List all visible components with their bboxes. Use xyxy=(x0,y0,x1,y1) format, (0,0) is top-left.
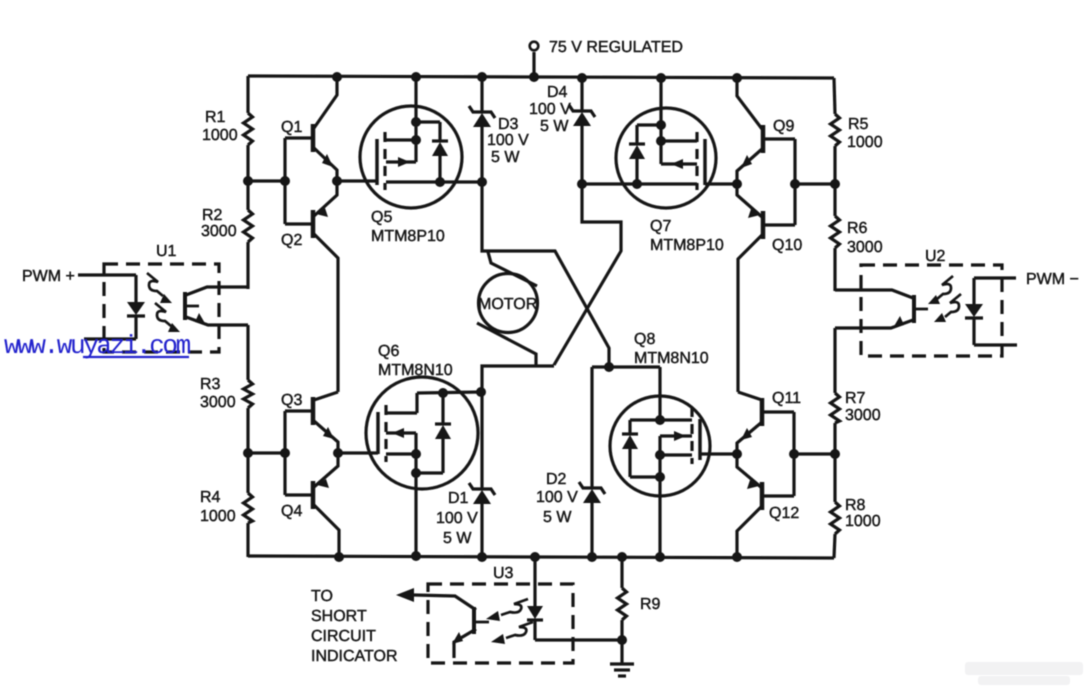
node R9 U3 junction xyxy=(617,635,627,645)
resistor R2 xyxy=(244,210,253,242)
zener D4 xyxy=(569,78,595,184)
wire right column top xyxy=(834,78,835,114)
resistor R4 xyxy=(244,493,253,523)
svg-text:5 W: 5 W xyxy=(443,530,472,547)
svg-text:1000: 1000 xyxy=(200,508,236,525)
svg-text:U3: U3 xyxy=(493,565,514,582)
node Q6 source rail xyxy=(411,551,421,561)
node gate Q5 junction xyxy=(332,176,342,186)
node Q8 source rail xyxy=(655,552,665,562)
zener D3 xyxy=(469,77,495,182)
wire right output jog to crossover xyxy=(554,184,621,365)
wire R3R4 junction to bases xyxy=(248,451,285,454)
svg-text:Q5: Q5 xyxy=(371,209,392,226)
zener D1 xyxy=(469,392,495,557)
svg-text:100 V: 100 V xyxy=(436,510,478,527)
svg-text:R5: R5 xyxy=(848,116,869,133)
wire gate node to Q5 xyxy=(337,179,377,182)
svg-text:5 W: 5 W xyxy=(540,118,569,135)
node Q12 collector on rail xyxy=(732,552,742,562)
wire R8 to bottom rail xyxy=(834,534,835,558)
node gate Q8 junction xyxy=(732,449,742,459)
wire rail to Q7 source xyxy=(659,78,662,125)
node Q8 source tap xyxy=(655,450,665,460)
wire gate node to Q7 xyxy=(705,182,737,185)
node Q6 drain out xyxy=(476,387,486,397)
svg-text:MTM8N10: MTM8N10 xyxy=(378,362,453,379)
svg-text:Q12: Q12 xyxy=(769,505,799,522)
wire R4 to bottom rail xyxy=(246,523,249,557)
svg-text:5 W: 5 W xyxy=(543,509,572,526)
node left output xyxy=(477,177,487,187)
wire U1 emitter to R3 xyxy=(246,325,249,380)
optocoupler U1 xyxy=(78,264,248,352)
wire U2 emitter to R7 xyxy=(833,328,836,393)
svg-text:PWM −: PWM − xyxy=(1026,271,1079,288)
resistor R9 xyxy=(618,557,627,664)
transistor Q3 xyxy=(285,392,338,453)
node Q6 source tap xyxy=(411,449,421,459)
node Q7 source mid xyxy=(656,136,666,146)
node gate Q6 junction xyxy=(333,448,343,458)
svg-text:U1: U1 xyxy=(156,243,177,260)
wire gate node to Q8 xyxy=(700,452,737,455)
svg-text:MTM8P10: MTM8P10 xyxy=(650,237,724,254)
svg-text:R2: R2 xyxy=(202,207,223,224)
svg-text:5 W: 5 W xyxy=(491,149,520,166)
resistor R7 xyxy=(831,393,840,423)
node 75V terminal xyxy=(529,42,539,82)
node Q7 source top xyxy=(656,120,666,130)
transistor Q8 (N-MOSFET) xyxy=(610,396,710,557)
node Q5 source mid xyxy=(411,135,421,145)
svg-text:SHORT: SHORT xyxy=(311,608,367,625)
node R3R4 junction xyxy=(243,448,253,458)
wire R1 to node xyxy=(246,145,249,210)
resistor R6 xyxy=(831,216,840,248)
wire gate node to Q6 xyxy=(338,451,378,454)
wire left column top xyxy=(246,76,249,113)
svg-text:100 V: 100 V xyxy=(536,489,578,506)
svg-text:Q3: Q3 xyxy=(281,392,302,409)
svg-text:R7: R7 xyxy=(845,390,866,407)
svg-text:R6: R6 xyxy=(847,220,868,237)
node bases junction left bottom xyxy=(280,448,290,458)
node Q6 source lower xyxy=(411,468,421,478)
node Q7 diode anode xyxy=(632,179,642,189)
wire R1R2 junction to bases xyxy=(248,179,285,182)
node gate Q7 junction xyxy=(732,179,742,189)
wire R3 to junction xyxy=(246,408,249,493)
svg-text:R8: R8 xyxy=(845,497,866,514)
zener D2 xyxy=(579,367,605,557)
svg-text:Q6: Q6 xyxy=(378,343,399,360)
node R5R6 junction xyxy=(830,179,840,189)
faint corner smudge xyxy=(965,662,1083,685)
svg-text:100 V: 100 V xyxy=(529,101,571,118)
wire Q8 drain line xyxy=(592,365,660,368)
svg-text:PWM +: PWM + xyxy=(22,268,75,285)
svg-text:Q11: Q11 xyxy=(772,390,801,407)
wire R2 to U1 collector xyxy=(246,242,249,289)
node crossover Q8 drain xyxy=(604,362,614,372)
transistor Q11 xyxy=(737,392,794,454)
wire top rail xyxy=(248,76,834,78)
svg-text:1000: 1000 xyxy=(845,513,881,530)
transistor Q5 (P-MOSFET) xyxy=(360,106,482,208)
svg-text:Q1: Q1 xyxy=(281,119,302,136)
node R7R8 junction xyxy=(830,449,840,459)
node D3 rail xyxy=(477,72,487,82)
motor xyxy=(477,252,538,366)
svg-text:TO: TO xyxy=(311,588,333,605)
node Q5 diode anode xyxy=(435,177,445,187)
svg-text:INDICATOR: INDICATOR xyxy=(311,648,398,665)
wire R5 to junction xyxy=(833,146,836,216)
svg-text:MTM8N10: MTM8N10 xyxy=(634,350,709,367)
node Q8 source lower xyxy=(655,472,665,482)
node D4 rail xyxy=(577,73,587,83)
wire crossover to Q6 drain xyxy=(482,366,554,392)
svg-text:3000: 3000 xyxy=(201,223,237,240)
wire bases to R7R8 junction xyxy=(794,452,835,455)
wire R7 to junction xyxy=(833,423,836,502)
transistor Q6 (N-MOSFET) xyxy=(366,377,481,556)
svg-text:D4: D4 xyxy=(547,84,568,101)
node R1R2 junction xyxy=(243,176,253,186)
svg-text:3000: 3000 xyxy=(200,394,236,411)
wire bases link Q3 Q4 xyxy=(283,411,286,495)
node bases junction left top xyxy=(280,176,290,186)
svg-text:U2: U2 xyxy=(925,248,946,265)
node Q1 collector on rail xyxy=(332,72,342,82)
node D1 rail xyxy=(477,552,487,562)
transistor Q7 (P-MOSFET) xyxy=(582,108,716,208)
transistor Q1 xyxy=(285,77,337,181)
svg-text:R1: R1 xyxy=(205,109,226,126)
svg-text:R4: R4 xyxy=(200,489,221,506)
wire bases link Q11 Q12 xyxy=(792,412,795,496)
node R9 rail xyxy=(617,552,627,562)
svg-text:MTM8P10: MTM8P10 xyxy=(371,228,445,245)
svg-text:Q8: Q8 xyxy=(634,331,655,348)
transistor Q12 xyxy=(737,454,794,557)
node U3 LED rail xyxy=(530,552,540,562)
transistor Q10 xyxy=(737,184,795,392)
svg-text:D1: D1 xyxy=(448,490,469,507)
svg-text:3000: 3000 xyxy=(845,407,881,424)
wire left output to crossover xyxy=(482,182,609,367)
node Q9 collector on rail xyxy=(732,73,742,83)
wire R6 to U2 collector xyxy=(833,248,836,291)
resistor R5 xyxy=(831,114,840,146)
node right output xyxy=(577,179,587,189)
svg-text:100 V: 100 V xyxy=(487,132,529,149)
node Q4 collector on rail xyxy=(334,552,344,562)
watermark wuyazi xyxy=(4,331,191,361)
svg-text:Q10: Q10 xyxy=(772,237,802,254)
node D2 rail xyxy=(587,552,597,562)
svg-text:Q2: Q2 xyxy=(281,232,302,249)
node rail Q5 feed xyxy=(411,72,421,82)
svg-text:1000: 1000 xyxy=(847,134,883,151)
node rail Q7 feed xyxy=(656,73,666,83)
wire bases link Q1 Q2 xyxy=(283,138,286,224)
svg-text:R3: R3 xyxy=(200,376,221,393)
svg-text:Q4: Q4 xyxy=(281,503,302,520)
wire bases to R5R6 junction xyxy=(795,182,835,185)
svg-text:D2: D2 xyxy=(546,471,567,488)
svg-text:Q7: Q7 xyxy=(650,218,671,235)
svg-text:Q9: Q9 xyxy=(773,118,794,135)
svg-text:MOTOR: MOTOR xyxy=(478,296,537,313)
resistor R3 xyxy=(244,380,253,408)
node bases junction right top xyxy=(790,179,800,189)
svg-text:CIRCUIT: CIRCUIT xyxy=(311,628,376,645)
wire Q8 drain down xyxy=(658,367,661,420)
node bases junction right bottom xyxy=(789,449,799,459)
resistor R1 xyxy=(244,113,253,145)
optocoupler U2 xyxy=(835,265,1017,356)
wire bottom rail xyxy=(248,556,834,558)
node Q6 drain diode xyxy=(438,388,448,398)
svg-text:3000: 3000 xyxy=(847,239,883,256)
optocoupler U3 xyxy=(396,557,622,663)
resistor R8 xyxy=(831,502,840,534)
node Q8 drain tap xyxy=(655,415,665,425)
transistor Q4 xyxy=(285,453,339,557)
svg-text:1000: 1000 xyxy=(202,127,238,144)
transistor Q9 xyxy=(737,78,795,184)
node Q5 source top xyxy=(411,117,421,127)
ground xyxy=(610,664,634,676)
wire rail to Q5 source xyxy=(414,77,417,122)
svg-text:D3: D3 xyxy=(498,116,519,133)
svg-text:R9: R9 xyxy=(640,596,661,613)
wire bases link Q9 Q10 xyxy=(793,139,796,225)
transistor Q2 xyxy=(285,181,338,392)
svg-text:75 V REGULATED: 75 V REGULATED xyxy=(549,39,683,56)
